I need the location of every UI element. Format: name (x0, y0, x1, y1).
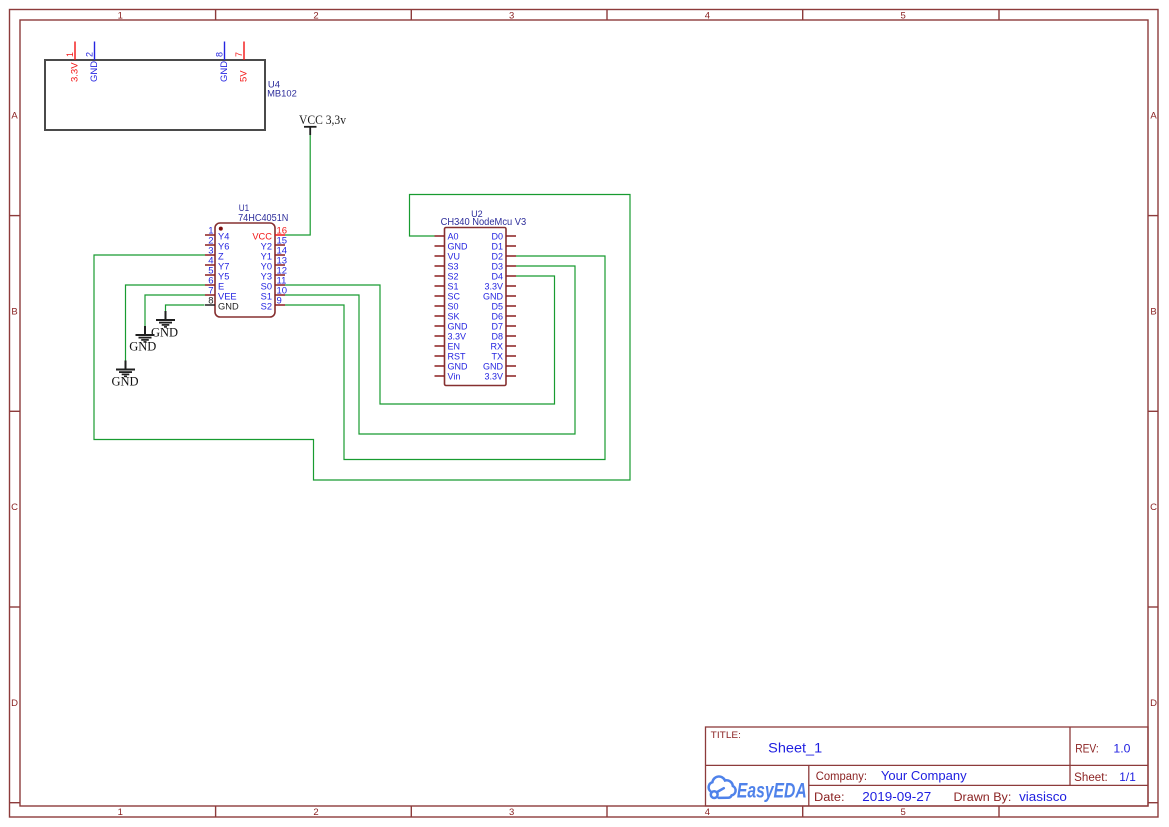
U1 pin 2 (Y6) (205, 236, 229, 252)
svg-text:D6: D6 (491, 312, 503, 322)
svg-text:viasisco: viasisco (1019, 789, 1067, 804)
svg-text:D2: D2 (491, 252, 503, 262)
U2 left pin GND (435, 242, 469, 252)
svg-text:1: 1 (65, 52, 75, 57)
svg-text:Y7: Y7 (218, 262, 229, 272)
svg-text:3.3V: 3.3V (69, 62, 80, 82)
svg-text:Sheet_1: Sheet_1 (768, 740, 822, 756)
ruler ticks left (10, 216, 21, 803)
svg-text:D: D (1150, 698, 1157, 709)
U4 pin 2 (GND) (85, 42, 100, 83)
svg-text:RST: RST (448, 352, 467, 362)
svg-text:A0: A0 (448, 232, 459, 242)
ruler letters left (11, 111, 18, 709)
svg-text:B: B (11, 306, 17, 317)
ruler ticks top (216, 10, 999, 21)
svg-text:A: A (1150, 111, 1157, 122)
title block outline (706, 727, 1149, 806)
svg-text:SC: SC (448, 292, 461, 302)
ruler ticks bottom (216, 806, 999, 817)
svg-text:2: 2 (313, 807, 318, 818)
svg-text:8: 8 (215, 52, 225, 57)
U2 right pin 3.3V (484, 372, 516, 382)
svg-text:74HC4051N: 74HC4051N (238, 213, 288, 224)
mcu U2 CH340 NodeMcu V3 body (445, 228, 507, 386)
svg-text:Drawn By:: Drawn By: (954, 792, 1012, 804)
U2 left pin VU (435, 252, 461, 262)
U2 right pin D2 (491, 252, 516, 262)
svg-text:GND: GND (448, 242, 469, 252)
svg-text:D7: D7 (491, 322, 503, 332)
svg-text:VCC: VCC (252, 232, 272, 242)
svg-text:1/1: 1/1 (1119, 770, 1136, 784)
U2 right pin 3.3V (484, 282, 516, 292)
U2 right pin D5 (491, 302, 516, 312)
svg-text:D4: D4 (491, 272, 503, 282)
svg-text:D1: D1 (491, 242, 503, 252)
svg-text:3: 3 (509, 11, 514, 22)
wire net S1: U1 pin10 to U2 D3 (285, 266, 575, 434)
svg-text:GND: GND (483, 362, 504, 372)
svg-text:4: 4 (705, 807, 710, 818)
svg-text:Y6: Y6 (218, 242, 229, 252)
U1 pin 9 (S2) (261, 296, 285, 312)
U1 pin 13 (Y0) (261, 256, 287, 272)
U2 right pin TX (491, 352, 516, 362)
svg-text:S3: S3 (448, 262, 459, 272)
svg-text:D8: D8 (491, 332, 503, 342)
U2 left pin Vin (435, 372, 461, 382)
U2 left pin SC (435, 292, 461, 302)
U2 left pin GND (435, 362, 469, 372)
wire VCC net to U1 pin 16 (285, 135, 310, 235)
wire net S0: U1 pin11 to U2 D4 (285, 276, 555, 404)
svg-text:2: 2 (85, 52, 95, 57)
svg-text:VCC 3,3v: VCC 3,3v (299, 112, 346, 127)
svg-text:CH340 NodeMcu V3: CH340 NodeMcu V3 (441, 217, 527, 228)
svg-text:1: 1 (118, 807, 123, 818)
svg-text:Y3: Y3 (261, 272, 272, 282)
wire net S2: U1 pin9 to U2 D2 (285, 256, 605, 460)
svg-text:5: 5 (900, 807, 905, 818)
U2 right pin GND (483, 362, 516, 372)
svg-text:GND: GND (151, 326, 178, 340)
svg-text:Your Company: Your Company (881, 768, 967, 783)
power flag VCC bar symbol (304, 127, 317, 135)
ground symbol GND (E net) (116, 361, 135, 377)
U1 pin 16 (VCC) (252, 226, 287, 242)
svg-text:C: C (11, 502, 18, 513)
U2 right pin D0 (491, 232, 516, 242)
svg-text:S1: S1 (261, 292, 272, 302)
svg-text:REV:: REV: (1075, 744, 1099, 756)
svg-text:RX: RX (490, 342, 503, 352)
svg-text:Sheet:: Sheet: (1074, 772, 1108, 784)
svg-text:9: 9 (277, 296, 282, 307)
U2 right pin GND (483, 292, 516, 302)
U2 right pin D1 (491, 242, 516, 252)
U1 pin 3 (Z) (205, 246, 224, 262)
svg-text:EN: EN (448, 342, 461, 352)
U2 left pin A0 (435, 232, 459, 242)
U4 pin 7 (5V) (234, 42, 249, 83)
U2 left pin GND (435, 322, 469, 332)
U2 left pin EN (435, 342, 461, 352)
ruler ticks right (1148, 216, 1158, 803)
U1 pin-1 orientation dot (219, 227, 223, 231)
svg-text:2019-09-27: 2019-09-27 (862, 789, 931, 804)
op-amp U1 74HC4051N body (215, 223, 275, 317)
U2 left pin S1 (435, 282, 459, 292)
U2 left pin S0 (435, 302, 459, 312)
svg-text:GND: GND (111, 375, 138, 389)
U2 right pin D6 (491, 312, 516, 322)
U1 pin 11 (S0) (261, 276, 287, 292)
svg-text:8: 8 (208, 296, 213, 307)
U1 pin 14 (Y1) (261, 246, 287, 262)
svg-text:S2: S2 (261, 302, 272, 312)
svg-text:Y5: Y5 (218, 272, 229, 282)
svg-text:Y1: Y1 (261, 252, 272, 262)
svg-text:GND: GND (89, 61, 100, 82)
svg-text:S1: S1 (448, 282, 459, 292)
svg-text:3.3V: 3.3V (484, 282, 503, 292)
U2 left pin 3.3V (435, 332, 467, 342)
U2 right pin D4 (491, 272, 516, 282)
svg-text:S0: S0 (261, 282, 272, 292)
ruler numbers top (118, 11, 906, 22)
svg-text:3.3V: 3.3V (448, 332, 467, 342)
svg-text:1.0: 1.0 (1113, 742, 1130, 756)
svg-text:D: D (11, 698, 18, 709)
U1 pin 1 (Y4) (205, 226, 229, 242)
svg-text:GND: GND (218, 302, 239, 312)
U2 left pin SK (435, 312, 460, 322)
U1 pin 7 (VEE) (205, 286, 237, 302)
ruler numbers bottom (118, 807, 906, 818)
EasyEDA logo cloud icon (709, 777, 736, 798)
ground symbol GND (U1 pin8 net) (156, 311, 175, 327)
svg-text:Z: Z (218, 252, 224, 262)
U1 pin 12 (Y3) (261, 266, 287, 282)
svg-text:GND: GND (129, 340, 156, 354)
U2 right pin D8 (491, 332, 516, 342)
U1 pin 10 (S1) (261, 286, 287, 302)
svg-text:S0: S0 (448, 302, 459, 312)
svg-text:Y4: Y4 (218, 232, 229, 242)
U2 left pin S3 (435, 262, 459, 272)
svg-text:VU: VU (448, 252, 461, 262)
ruler letters right (1150, 111, 1157, 709)
U2 left pin RST (435, 352, 467, 362)
wire net E: U1 pin6 to ground (126, 285, 206, 361)
svg-text:Y0: Y0 (261, 262, 272, 272)
svg-text:1: 1 (118, 11, 123, 22)
U2 right pin RX (490, 342, 516, 352)
U2 right pin D3 (491, 262, 516, 272)
U2 left pin S2 (435, 272, 459, 282)
svg-text:TX: TX (491, 352, 503, 362)
U1 pin 5 (Y5) (205, 266, 229, 282)
U1 pin 4 (Y7) (205, 256, 229, 272)
svg-text:GND: GND (448, 362, 469, 372)
svg-text:3.3V: 3.3V (484, 372, 503, 382)
svg-text:D5: D5 (491, 302, 503, 312)
svg-text:4: 4 (705, 11, 710, 22)
svg-text:Company:: Company: (816, 771, 867, 783)
svg-text:Date:: Date: (814, 792, 845, 804)
svg-text:5V: 5V (238, 70, 249, 82)
U4 pin 8 (GND) (215, 42, 230, 83)
svg-text:GND: GND (219, 61, 230, 82)
U1 pin 8 (GND) (205, 296, 239, 312)
power module U4 MB102 body (45, 60, 265, 130)
svg-text:B: B (1150, 306, 1156, 317)
U2 right pin D7 (491, 322, 516, 332)
svg-text:D0: D0 (491, 232, 503, 242)
svg-text:SK: SK (448, 312, 460, 322)
svg-text:2: 2 (313, 11, 318, 22)
svg-text:5: 5 (900, 11, 905, 22)
svg-text:7: 7 (234, 52, 244, 57)
svg-text:MB102: MB102 (267, 88, 297, 99)
wire net VEE: U1 pin7 to ground (145, 295, 205, 326)
svg-text:E: E (218, 282, 224, 292)
svg-text:Vin: Vin (448, 372, 461, 382)
svg-text:D3: D3 (491, 262, 503, 272)
wire net GND: U1 pin8 to ground (166, 305, 205, 311)
svg-text:VEE: VEE (218, 292, 237, 302)
U1 pin 15 (Y2) (261, 236, 287, 252)
svg-text:EasyEDA: EasyEDA (737, 780, 807, 803)
svg-text:A: A (11, 111, 18, 122)
svg-text:TITLE:: TITLE: (711, 730, 741, 740)
wire net Z: U1 pin3 to U2 A0 (94, 195, 630, 481)
svg-text:C: C (1150, 502, 1157, 513)
U1 pin 6 (E) (205, 276, 224, 292)
ground symbol GND (VEE net) (136, 326, 155, 342)
svg-text:GND: GND (448, 322, 469, 332)
svg-text:GND: GND (483, 292, 504, 302)
svg-text:3: 3 (509, 807, 514, 818)
svg-text:S2: S2 (448, 272, 459, 282)
U4 pin 1 (3.3V) (65, 42, 80, 83)
svg-text:Y2: Y2 (261, 242, 272, 252)
